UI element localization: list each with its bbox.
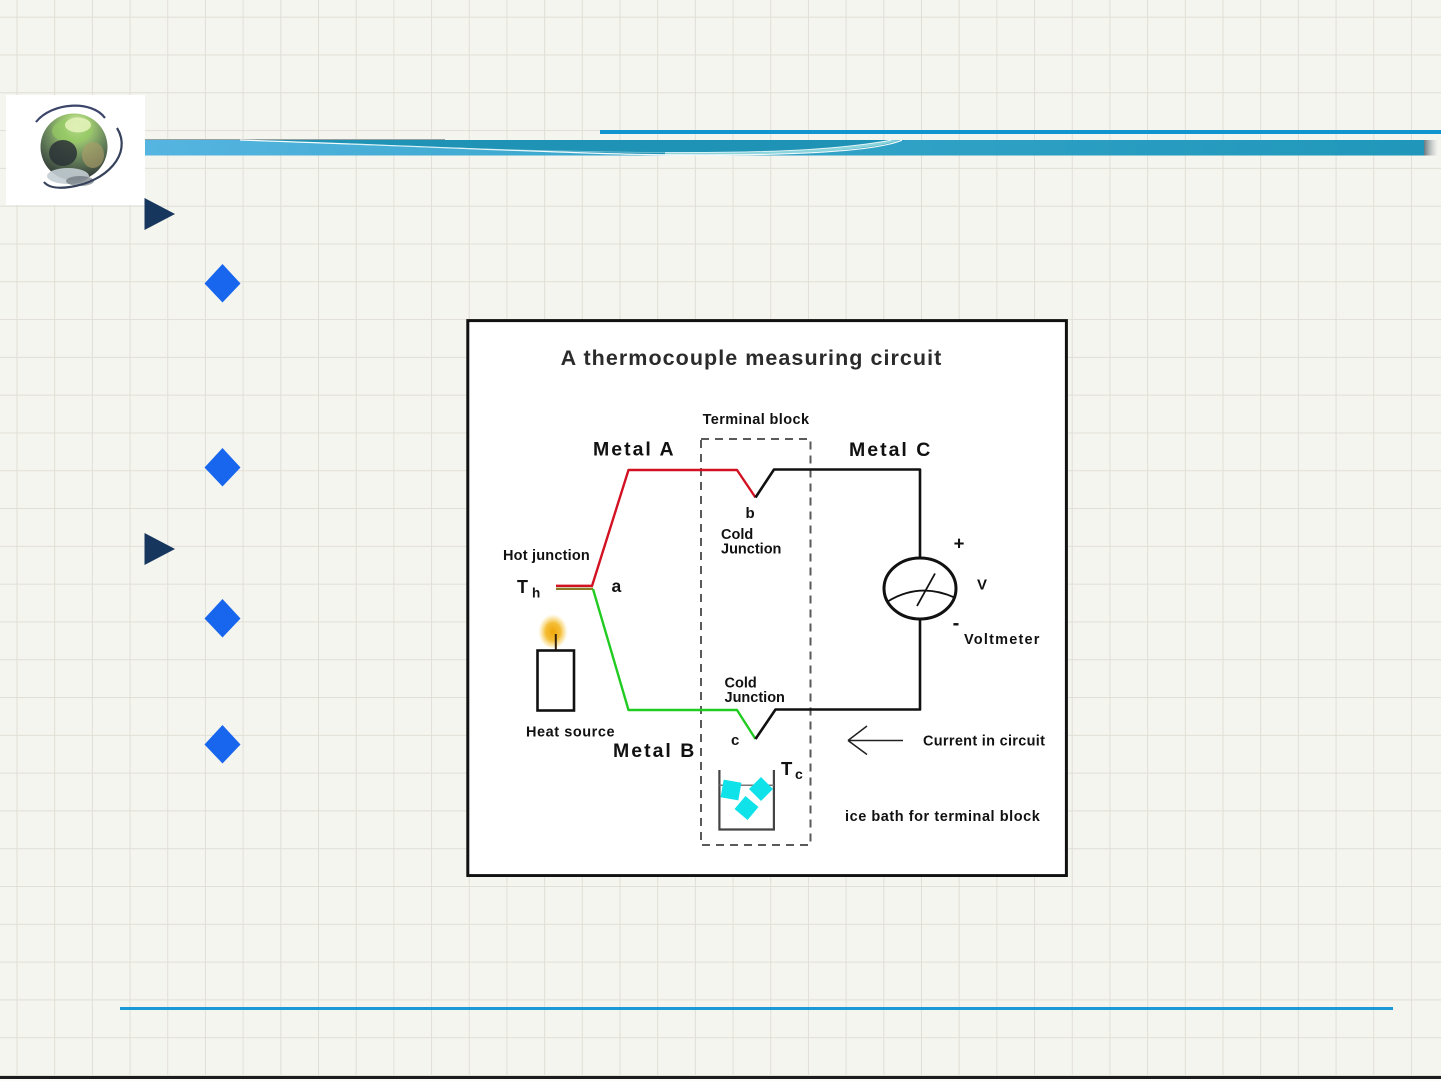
label Metal A <box>593 439 676 461</box>
dark swoosh band <box>245 140 905 155</box>
bottom light strip <box>0 1079 1441 1081</box>
bullet arrow 1 <box>144 198 177 231</box>
label plus <box>954 533 965 554</box>
bullet arrow 2 <box>144 533 177 566</box>
voltmeter U1 <box>884 558 956 619</box>
label node a <box>612 576 622 596</box>
ribbon end cap shadow <box>1424 140 1438 156</box>
ice cubes <box>721 777 773 820</box>
bullet diamond 1 <box>204 264 241 303</box>
bullet diamond 2 <box>204 448 241 487</box>
svg-text:Current in circuit: Current in circuit <box>923 734 1045 750</box>
svg-text:Junction: Junction <box>721 542 781 558</box>
svg-text:Junction: Junction <box>725 690 785 706</box>
terminal block dashed box <box>701 439 811 845</box>
label V <box>977 577 987 594</box>
wire metal B (green) <box>593 589 756 739</box>
bullet diamond 4 <box>204 725 241 764</box>
logo white box <box>6 95 145 205</box>
svg-text:T: T <box>781 758 793 779</box>
diagram title <box>561 346 943 370</box>
svg-text:c: c <box>795 766 803 782</box>
svg-text:-: - <box>953 613 960 635</box>
label Th <box>517 577 540 601</box>
svg-text:ice bath for terminal block: ice bath for terminal block <box>845 809 1041 825</box>
bottom dark bar <box>0 1076 1441 1079</box>
svg-text:+: + <box>954 533 965 554</box>
label Hot junction <box>503 548 590 564</box>
wire metal C (black) <box>756 470 921 740</box>
label node c <box>731 732 739 749</box>
label Current in circuit <box>923 734 1045 750</box>
svg-text:b: b <box>746 505 755 522</box>
svg-text:V: V <box>977 577 987 594</box>
label Heat source <box>526 725 615 741</box>
label Metal B <box>613 740 696 762</box>
thermocouple diagram image <box>466 319 1068 877</box>
label Terminal block <box>703 412 810 428</box>
current arrow <box>848 726 903 755</box>
svg-text:T: T <box>517 577 528 597</box>
label minus <box>953 613 960 635</box>
ice bath beaker <box>719 770 774 830</box>
label cold junction top <box>721 527 781 558</box>
diagram frame <box>468 321 1067 876</box>
label Tc <box>781 758 803 782</box>
hot junction weld bar (olive) <box>556 588 593 590</box>
svg-text:a: a <box>612 576 622 596</box>
globe logo <box>6 95 145 205</box>
svg-text:Metal B: Metal B <box>613 740 696 762</box>
svg-text:h: h <box>532 586 540 601</box>
svg-text:Hot junction: Hot junction <box>503 548 590 564</box>
footer blue line <box>120 1007 1393 1010</box>
svg-text:c: c <box>731 732 739 749</box>
white swoosh curves <box>240 140 902 155</box>
banner ribbon <box>145 137 1441 159</box>
label node b <box>746 505 755 522</box>
label Voltmeter <box>964 632 1041 648</box>
label cold junction bottom <box>725 676 785 707</box>
aqua highlight sliver <box>665 140 900 155</box>
label ice bath <box>845 809 1041 825</box>
svg-text:Heat source: Heat source <box>526 725 615 741</box>
banner thin blue line <box>600 130 1441 134</box>
bullet diamond 3 <box>204 599 241 638</box>
wire metal A (red) <box>556 470 756 586</box>
svg-text:Terminal block: Terminal block <box>703 412 810 428</box>
svg-text:A thermocouple measuring circu: A thermocouple measuring circuit <box>561 346 943 370</box>
svg-text:Metal A: Metal A <box>593 439 676 461</box>
svg-text:Metal C: Metal C <box>849 439 932 461</box>
label Metal C <box>849 439 932 461</box>
svg-text:Voltmeter: Voltmeter <box>964 632 1041 648</box>
heat source candle <box>538 612 575 711</box>
